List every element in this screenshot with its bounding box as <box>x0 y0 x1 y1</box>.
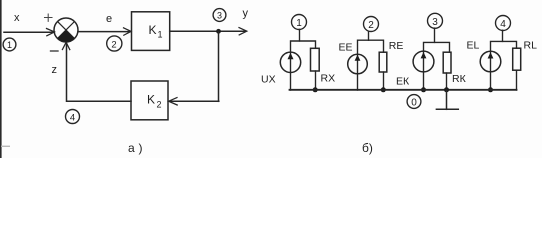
node 1 (circuit) <box>292 15 307 30</box>
arrowhead into K1 <box>124 28 132 35</box>
source UX <box>280 52 300 72</box>
bottom rail wire <box>290 89 517 91</box>
wire feedback into K2 <box>169 100 219 102</box>
node 3 <box>213 9 226 22</box>
svg-text:z: z <box>52 64 58 76</box>
node 2 <box>107 36 122 51</box>
svg-text:2: 2 <box>111 39 116 50</box>
wire node4 stub <box>502 30 504 41</box>
svg-text:RL: RL <box>524 40 538 52</box>
svg-text:2: 2 <box>368 20 374 31</box>
node 3 (circuit) <box>428 13 443 28</box>
wire feedback vertical from node 3 <box>218 31 220 101</box>
junction dot EK-rail <box>421 87 426 92</box>
node 0 <box>407 95 421 109</box>
plus sign <box>45 14 53 21</box>
wire RX to rail <box>315 71 317 90</box>
wire branch1 top <box>291 41 316 90</box>
svg-text:4: 4 <box>70 112 75 123</box>
svg-text:3: 3 <box>432 17 438 28</box>
svg-text:RК: RК <box>452 73 467 85</box>
svg-text:а): а) <box>128 141 143 155</box>
svg-text:RX: RX <box>321 73 336 85</box>
wire output of K1 to y <box>170 30 245 32</box>
source EE <box>348 54 368 74</box>
svg-text:RE: RE <box>389 40 404 52</box>
junction dot RX-rail <box>313 87 318 92</box>
wire branch3 top <box>424 42 450 90</box>
node 4 <box>66 110 80 124</box>
svg-text:x: x <box>14 12 20 24</box>
svg-text:K: K <box>149 23 157 37</box>
wire branch4 top <box>491 41 517 90</box>
arrowhead into summing junction <box>47 29 55 36</box>
svg-text:4: 4 <box>500 19 506 30</box>
junction dot RE-rail <box>381 87 386 92</box>
arrowhead up into summing junction <box>62 42 69 49</box>
svg-text:3: 3 <box>217 11 222 21</box>
wire node1 stub <box>299 29 301 41</box>
summing junction U1 <box>54 18 78 42</box>
wire RK to rail <box>446 73 448 90</box>
svg-text:K: K <box>147 93 155 107</box>
svg-text:UX: UX <box>261 74 276 86</box>
ground <box>436 87 458 109</box>
scan border left edge <box>0 0 2 158</box>
svg-text:0: 0 <box>411 97 417 108</box>
svg-text:EК: EК <box>396 76 410 88</box>
node 4 (circuit) <box>496 16 511 31</box>
resistor RK <box>443 52 451 73</box>
arrowhead output y <box>239 28 247 35</box>
block K2 <box>131 81 168 120</box>
arrowhead into K2 <box>169 98 178 105</box>
wire input x <box>4 31 53 33</box>
svg-text:y: y <box>243 8 249 20</box>
svg-text:1: 1 <box>158 30 163 40</box>
node 2 (circuit) <box>364 17 379 32</box>
wire node3 stub <box>434 28 436 42</box>
wire node2 stub <box>368 31 370 40</box>
wire RE to rail <box>383 72 385 90</box>
svg-text:EE: EE <box>339 42 353 54</box>
wire RL to rail <box>516 70 518 90</box>
svg-text:e: e <box>106 13 112 25</box>
scan mark bottom-left <box>1 146 10 147</box>
source EL <box>480 51 501 72</box>
wire branch2 top <box>358 40 384 90</box>
svg-text:б): б) <box>362 141 373 155</box>
junction dot EL-rail <box>488 87 493 92</box>
node 1 <box>3 38 16 51</box>
wire from K2 back to summing junction <box>67 43 132 101</box>
junction dot on output line <box>216 29 221 34</box>
resistor RX <box>311 48 320 71</box>
resistor RL <box>513 48 521 70</box>
source EK <box>413 51 434 72</box>
block K1 <box>132 12 170 51</box>
resistor RE <box>379 52 387 72</box>
svg-text:2: 2 <box>157 100 162 110</box>
wire e from junction to K1 <box>78 31 130 33</box>
minus sign <box>51 50 59 52</box>
svg-text:1: 1 <box>296 18 302 29</box>
svg-text:1: 1 <box>7 40 12 50</box>
svg-text:EL: EL <box>467 40 480 52</box>
